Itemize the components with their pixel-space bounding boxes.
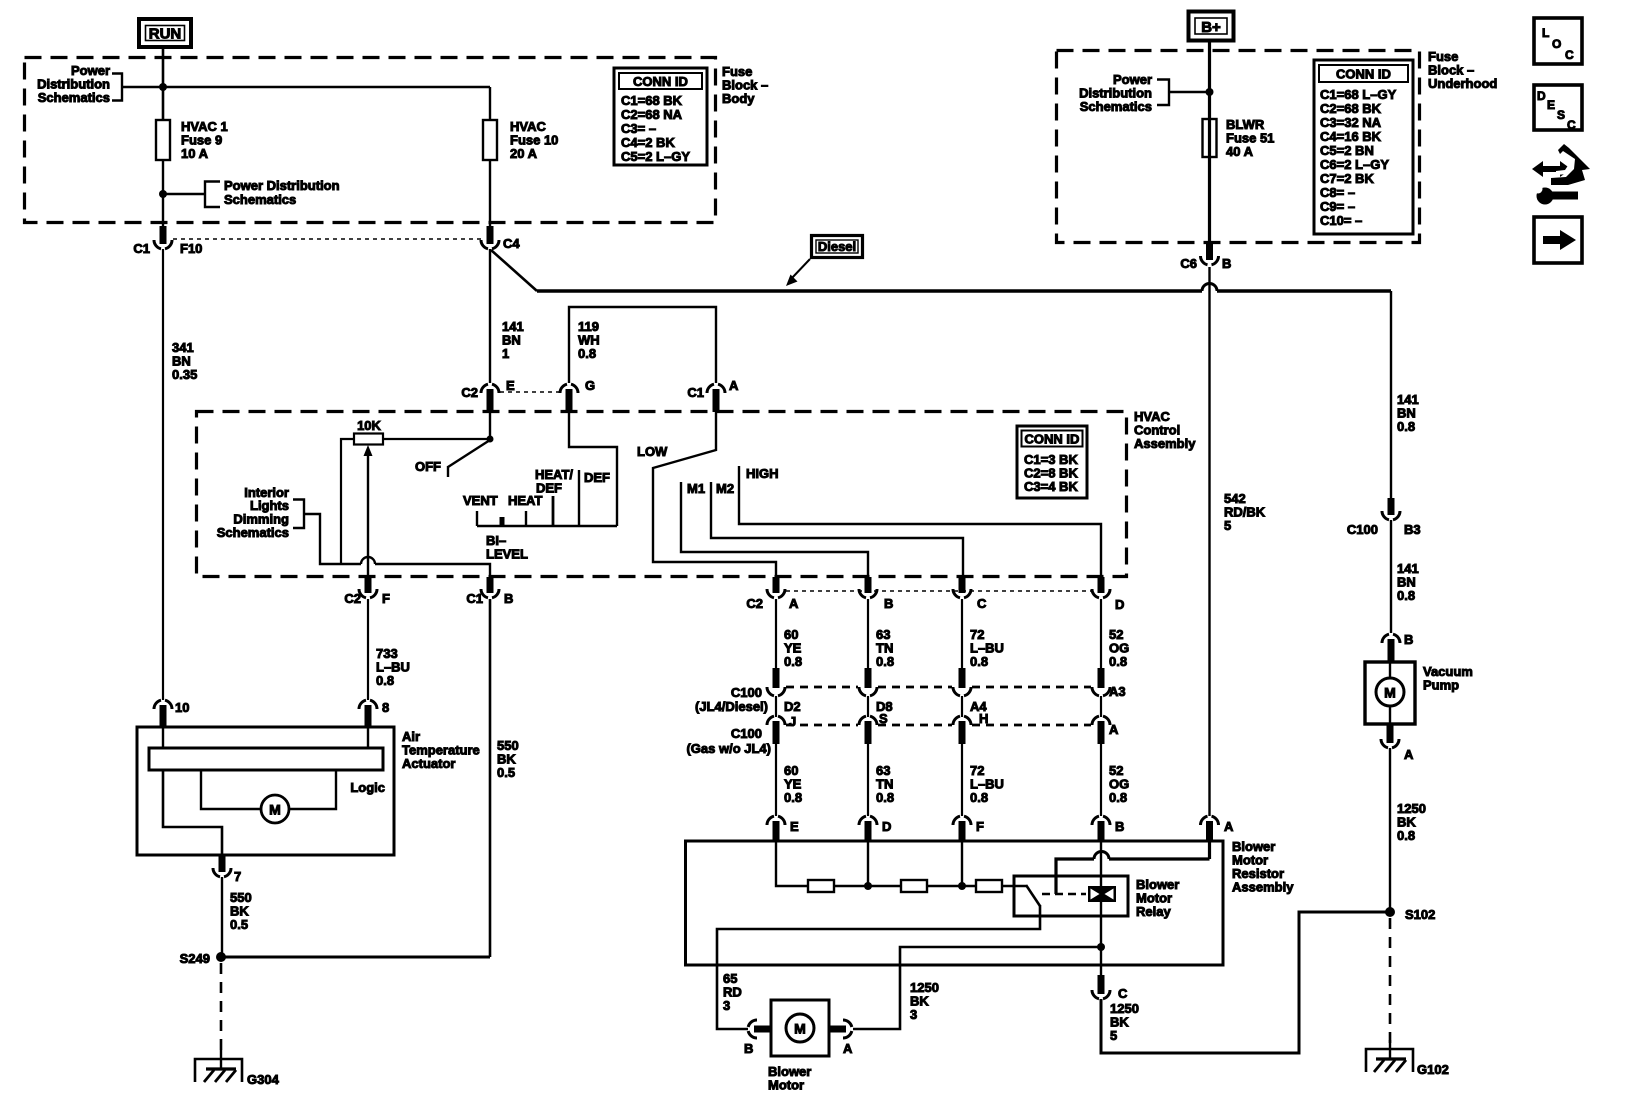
svg-text:Underhood: Underhood: [1428, 76, 1497, 91]
svg-text:C2: C2: [344, 591, 361, 606]
svg-text:C: C: [1118, 986, 1128, 1001]
svg-text:C2: C2: [461, 385, 478, 400]
wire R3 to relay: [1002, 885, 1026, 887]
wire fuse 9 down: [162, 160, 164, 241]
svg-text:F: F: [382, 591, 390, 606]
svg-text:C4: C4: [503, 236, 520, 251]
Power Distribution Schematics callout (underhood): [1079, 72, 1210, 114]
wire R1-R2: [834, 885, 901, 887]
wire S249 to C1 pin B: [221, 956, 490, 959]
connector C100 pin S lower half: [859, 711, 888, 744]
connector C100 pin A lower half: [1092, 716, 1119, 744]
node: junction at RUN feed: [159, 83, 167, 91]
svg-text:G304: G304: [247, 1072, 280, 1087]
svg-text:5: 5: [1110, 1028, 1117, 1043]
svg-text:0.8: 0.8: [970, 790, 988, 805]
wire R2-R3: [927, 885, 976, 887]
Power Distribution Schematics callout (lower): [163, 178, 340, 207]
svg-text:B3: B3: [1404, 522, 1421, 537]
connector motor pin A: [843, 1020, 853, 1056]
connector C100 pin A4 upper half: [953, 668, 987, 714]
connector C4: [481, 226, 520, 251]
connector pin C: [1092, 975, 1128, 1001]
connector C1 pin F10: [133, 226, 202, 256]
resistor R3: [976, 880, 1002, 892]
svg-text:C100: C100: [731, 726, 762, 741]
svg-text:B: B: [884, 596, 893, 611]
svg-text:C7=2 BK: C7=2 BK: [1320, 171, 1374, 186]
svg-text:Schematics: Schematics: [224, 192, 296, 207]
wire 72 L–BU 0.8 lower: [962, 744, 1004, 816]
wire bar to pin 7: [163, 770, 222, 855]
svg-text:C5=2 BN: C5=2 BN: [1320, 143, 1374, 158]
svg-text:C3=4 BK: C3=4 BK: [1024, 479, 1078, 494]
svg-text:LEVEL: LEVEL: [486, 547, 528, 562]
svg-text:C6=2 L–GY: C6=2 L–GY: [1320, 157, 1389, 172]
svg-text:HIGH: HIGH: [746, 466, 779, 481]
svg-text:Pump: Pump: [1423, 678, 1459, 693]
Interior Lights Dimming Schematics callout: [217, 485, 341, 564]
svg-text:40 A: 40 A: [1226, 144, 1254, 159]
svg-text:C1: C1: [466, 591, 483, 606]
connector C2 pin F: [344, 577, 390, 606]
wire diesel feed diagonal from C4: [491, 250, 537, 291]
wire 72 L–BU 0.8: [962, 599, 1004, 669]
wire diesel feed horizontal: [537, 289, 1202, 292]
connector C1 pin B: [466, 577, 513, 606]
connector C100 pin J lower half: [767, 714, 796, 744]
label 65 RD 3: [723, 971, 742, 1013]
svg-text:C100: C100: [731, 685, 762, 700]
node S102 splice: [1385, 907, 1435, 922]
wire 1250 BK 3 from motor A: [853, 947, 1101, 1029]
svg-text:Diesel: Diesel: [818, 239, 856, 254]
dashed connector face E-G: [500, 391, 560, 393]
label Fuse Block - Body: [722, 64, 768, 106]
svg-text:0.8: 0.8: [876, 654, 894, 669]
blower switch wire from A with LOW blade: [637, 412, 776, 576]
connector pin G: [560, 378, 595, 412]
wire 550 BK 0.5 (C1 B down): [490, 599, 519, 957]
wire 60 YE 0.8: [776, 599, 802, 669]
svg-text:C2=68 BK: C2=68 BK: [1320, 101, 1382, 116]
connector C1 pin A (HVAC control): [687, 378, 739, 412]
svg-text:Body: Body: [722, 91, 755, 106]
svg-text:D: D: [1537, 89, 1546, 103]
wire B+ down: [1208, 41, 1211, 243]
label Blower Motor Relay: [1136, 877, 1179, 919]
svg-text:A: A: [843, 1041, 853, 1056]
svg-text:M: M: [794, 1021, 806, 1037]
wire fuse 10 down: [489, 160, 491, 241]
connector C2 pin D: [1092, 577, 1124, 612]
svg-text:0.8: 0.8: [1109, 654, 1127, 669]
node: motor return junction: [1097, 943, 1105, 951]
relay switch blade: [1026, 885, 1040, 906]
potentiometer element bar: [149, 748, 383, 770]
connector C100 pin H lower half: [953, 711, 988, 744]
wire E stub down to junction: [489, 412, 491, 439]
svg-text:L: L: [1542, 26, 1549, 40]
svg-text:C: C: [1565, 48, 1574, 62]
Blower Motor: [754, 1000, 846, 1056]
svg-text:Motor: Motor: [768, 1078, 804, 1093]
svg-text:A: A: [1404, 747, 1414, 762]
svg-text:0.35: 0.35: [172, 367, 197, 382]
label HVAC Control Assembly: [1134, 409, 1196, 451]
svg-text:0.8: 0.8: [1397, 588, 1415, 603]
ground G102: [1366, 1040, 1449, 1077]
wire 119 WH 0.8 loop G to A: [569, 307, 716, 383]
connector motor pin B: [744, 1020, 757, 1056]
svg-text:C1=68 BK: C1=68 BK: [621, 93, 683, 108]
wire coil feed from pin A: [1056, 841, 1210, 894]
wire 1250 BK 0.8: [1390, 748, 1426, 908]
wire 10K to E junction: [383, 438, 490, 440]
svg-text:7: 7: [234, 869, 241, 884]
svg-text:S102: S102: [1405, 907, 1435, 922]
connector vacuum pump pin B: [1382, 632, 1413, 662]
connector resistor pin E: [767, 816, 799, 841]
svg-text:B+: B+: [1201, 19, 1221, 36]
ground G304: [195, 1050, 280, 1087]
wire 733 L-BU 0.8: [368, 599, 410, 700]
svg-text:20 A: 20 A: [510, 146, 538, 161]
svg-text:C2=68 NA: C2=68 NA: [621, 107, 683, 122]
wire relay output to blower motor B: [717, 905, 1040, 1029]
CONN ID table (fuse block body): [614, 68, 707, 165]
wire F drop: [961, 841, 963, 886]
wire 63 TN 0.8 lower: [868, 744, 894, 816]
ignition RUN source box: [139, 19, 191, 47]
wire 341 BN 0.35: [163, 249, 197, 700]
dashed connector face C100 upper: [786, 686, 1091, 689]
svg-text:0.8: 0.8: [876, 790, 894, 805]
connector resistor pin B: [1092, 816, 1124, 841]
svg-text:0.8: 0.8: [784, 654, 802, 669]
svg-text:(Gas w/o JL4): (Gas w/o JL4): [686, 741, 771, 756]
svg-text:10 A: 10 A: [181, 146, 209, 161]
wire fuse 10 drop: [489, 87, 491, 120]
svg-text:10: 10: [175, 700, 189, 715]
svg-text:S249: S249: [180, 951, 210, 966]
svg-text:Actuator: Actuator: [402, 756, 455, 771]
svg-text:C: C: [977, 596, 987, 611]
motor M actuator: [261, 795, 289, 823]
Blower Motor Resistor Assembly box: [686, 841, 1224, 965]
wire 63 TN 0.8: [868, 599, 894, 669]
relay coil actuation dashes: [1042, 893, 1086, 896]
connector C2 pin C: [953, 577, 987, 611]
Fuse Block - Underhood dashed enclosure: [1057, 51, 1420, 243]
connector C2 pin B: [859, 577, 893, 611]
svg-text:VENT: VENT: [463, 493, 498, 508]
svg-text:B: B: [1404, 632, 1413, 647]
svg-text:B: B: [504, 591, 513, 606]
wire motor right to bar: [289, 770, 336, 809]
fuse F9 HVAC 1 10A: [156, 119, 228, 161]
mode position DEF: [579, 470, 610, 526]
resistor R2: [901, 880, 927, 892]
svg-text:Power Distribution: Power Distribution: [224, 178, 340, 193]
wire dimmer rail to C1 pin B: [341, 563, 361, 565]
svg-text:0.8: 0.8: [784, 790, 802, 805]
svg-text:Assembly: Assembly: [1134, 436, 1196, 451]
svg-text:C10= –: C10= –: [1320, 213, 1362, 228]
svg-text:Logic: Logic: [350, 780, 385, 795]
connector actuator pin 7: [213, 855, 241, 884]
relay coil: [1088, 886, 1116, 902]
wire E into resistor chain: [776, 841, 808, 886]
node S249 splice: [180, 951, 226, 966]
svg-text:C1: C1: [687, 385, 704, 400]
node: OFF switch junction: [487, 436, 494, 443]
svg-text:10K: 10K: [357, 418, 381, 433]
svg-text:C8= –: C8= –: [1320, 185, 1355, 200]
wire 10K left side: [341, 439, 354, 564]
blower switch M1 wire: [681, 481, 868, 576]
CONN ID table (HVAC control): [1017, 426, 1087, 498]
switch blade OFF: [415, 440, 490, 477]
wire C100 mate: [867, 696, 869, 717]
svg-text:M: M: [269, 802, 281, 818]
svg-text:Assembly: Assembly: [1232, 880, 1294, 895]
svg-text:F: F: [976, 819, 984, 834]
mode position VENT: [463, 493, 498, 526]
fuse F10 HVAC 20A: [483, 119, 558, 161]
node: F tap: [958, 882, 966, 890]
svg-text:Schematics: Schematics: [1080, 99, 1152, 114]
svg-text:J: J: [789, 714, 796, 729]
svg-text:Relay: Relay: [1136, 904, 1171, 919]
svg-text:M1: M1: [687, 481, 705, 496]
wire C100 mate: [961, 696, 963, 717]
svg-text:A: A: [729, 378, 739, 393]
wire bar to motor left: [201, 770, 261, 809]
wire C100 mate: [1100, 696, 1102, 717]
connector vacuum pump pin A: [1381, 724, 1414, 762]
connector resistor pin F: [953, 816, 984, 841]
svg-text:C2: C2: [746, 596, 763, 611]
svg-text:CONN ID: CONN ID: [633, 74, 688, 89]
resistor R1: [808, 880, 834, 892]
svg-text:F10: F10: [180, 241, 202, 256]
svg-text:A: A: [1109, 722, 1119, 737]
svg-text:0.8: 0.8: [1109, 790, 1127, 805]
svg-text:C3= –: C3= –: [621, 121, 656, 136]
svg-text:0.8: 0.8: [376, 673, 394, 688]
wire 52 OG 0.8 lower: [1101, 744, 1129, 816]
svg-text:B: B: [744, 1041, 753, 1056]
connector C100 pin D8 upper half: [859, 668, 893, 714]
svg-text:0.5: 0.5: [230, 917, 248, 932]
label Blower Motor Resistor Assembly: [1232, 839, 1294, 895]
blower switch M2 wire: [711, 481, 963, 576]
svg-text:(JL4/Diesel): (JL4/Diesel): [695, 699, 768, 714]
dashed connector face line C1-C4: [173, 238, 481, 240]
svg-text:M: M: [1384, 685, 1396, 701]
svg-text:RUN: RUN: [149, 26, 182, 43]
wire pin 10 into bar: [162, 727, 164, 748]
mode position HEAT/DEF: [535, 467, 573, 526]
node: power distribution tap: [159, 190, 167, 198]
connector C100 pin D2 upper half: [767, 668, 801, 714]
svg-text:S: S: [1557, 108, 1565, 122]
svg-text:OFF: OFF: [415, 459, 441, 474]
wire C100 mate: [775, 696, 777, 717]
svg-text:C9= –: C9= –: [1320, 199, 1355, 214]
svg-text:DEF: DEF: [584, 470, 610, 485]
svg-text:C100: C100: [1347, 522, 1378, 537]
wire S249 to ground dashed: [220, 963, 223, 1057]
wire D drop: [867, 841, 869, 886]
label Air Temperature Actuator: [402, 729, 480, 771]
svg-text:0.8: 0.8: [578, 346, 596, 361]
wire 52 OG 0.8: [1101, 599, 1129, 669]
wire feed to fuse 10: [163, 86, 490, 88]
wire 141 BN 1 (C4 down): [490, 249, 524, 383]
mode position BI-LEVEL: [486, 517, 528, 562]
svg-text:CONN ID: CONN ID: [1025, 432, 1080, 447]
connector C2 pin E (HVAC control): [461, 378, 515, 412]
node: underhood feed tap: [1206, 88, 1214, 96]
wire 542 RD/BK 5: [1210, 267, 1266, 816]
icon wiring repair (arrows and wrench): [1532, 144, 1590, 205]
Diesel callout box: [786, 236, 863, 287]
svg-text:3: 3: [723, 998, 730, 1013]
svg-text:A: A: [1224, 819, 1234, 834]
svg-text:E: E: [790, 819, 799, 834]
svg-text:M2: M2: [716, 481, 734, 496]
wire hop over wiper: [361, 557, 375, 564]
connector C6 pin B: [1180, 243, 1231, 271]
svg-text:C6: C6: [1180, 256, 1197, 271]
label Blower Motor: [768, 1064, 811, 1093]
blower switch HIGH wire: [739, 466, 1101, 576]
svg-text:C: C: [1567, 118, 1576, 132]
svg-text:Schematics: Schematics: [38, 90, 110, 105]
svg-text:C5=2 L–GY: C5=2 L–GY: [621, 149, 690, 164]
icon DESC box: [1534, 85, 1582, 132]
icon forward arrow box: [1534, 217, 1582, 263]
svg-text:5: 5: [1224, 518, 1231, 533]
svg-text:Schematics: Schematics: [217, 525, 289, 540]
HVAC Control Assembly dashed enclosure: [197, 412, 1127, 577]
svg-text:D: D: [1115, 597, 1124, 612]
svg-text:0.5: 0.5: [497, 765, 515, 780]
svg-text:G102: G102: [1417, 1062, 1449, 1077]
connector C2 pin A: [746, 577, 799, 611]
svg-text:G: G: [585, 378, 595, 393]
svg-text:0.8: 0.8: [1397, 419, 1415, 434]
svg-text:0.8: 0.8: [970, 654, 988, 669]
svg-text:C3=32 NA: C3=32 NA: [1320, 115, 1382, 130]
wire B column through relay: [1100, 841, 1102, 975]
svg-text:8: 8: [382, 700, 389, 715]
CONN ID table (fuse block underhood): [1314, 60, 1413, 234]
dashed connector face C100 lower: [786, 724, 1091, 727]
connector actuator pin 10: [154, 700, 189, 727]
connector C100 pin B3: [1347, 498, 1421, 537]
svg-text:C1=68 L–GY: C1=68 L–GY: [1320, 87, 1397, 102]
svg-text:A: A: [789, 596, 799, 611]
wire RUN to fuse 9: [162, 47, 165, 120]
svg-text:C4=2 BK: C4=2 BK: [621, 135, 675, 150]
wire 141 BN 0.8 (lower right): [1391, 520, 1419, 633]
mode switch rail: [477, 525, 617, 527]
wire 141 BN 0.8 (upper right): [1391, 291, 1419, 498]
mode position HEAT: [508, 493, 542, 526]
node: D tap: [864, 882, 872, 890]
fuse F51 BLWR 40A: [1203, 117, 1275, 159]
svg-text:O: O: [1552, 37, 1561, 51]
svg-text:CONN ID: CONN ID: [1336, 67, 1391, 82]
mode switch feed from G: [569, 412, 617, 526]
wire 1250 BK 5 to S102: [1101, 912, 1386, 1053]
connector resistor pin A: [1201, 816, 1235, 841]
Fuse Block - Body dashed enclosure: [25, 58, 716, 223]
svg-text:C1: C1: [133, 241, 150, 256]
connector actuator pin 8: [359, 700, 389, 727]
svg-text:0.8: 0.8: [1397, 828, 1415, 843]
battery B+ source box: [1189, 12, 1234, 41]
dashed connector face A-D: [786, 590, 1092, 592]
icon LOC box: [1534, 18, 1582, 64]
svg-text:E: E: [506, 378, 515, 393]
svg-text:D2: D2: [784, 699, 801, 714]
svg-text:LOW: LOW: [637, 444, 668, 459]
svg-text:E: E: [1547, 98, 1555, 112]
svg-text:D: D: [882, 819, 891, 834]
svg-text:A3: A3: [1109, 684, 1126, 699]
connector C100 (Gas w/o JL4) labels: [686, 726, 771, 756]
svg-text:DEF: DEF: [536, 481, 562, 496]
connector resistor pin D: [859, 816, 891, 841]
wire 60 YE 0.8 lower: [776, 744, 802, 816]
Vacuum Pump: [1365, 662, 1473, 724]
svg-text:C4=16 BK: C4=16 BK: [1320, 129, 1382, 144]
svg-text:B: B: [1115, 819, 1124, 834]
svg-text:3: 3: [910, 1007, 917, 1022]
Air Temperature Actuator box: [137, 727, 394, 855]
resistor 10K (illumination pot): [354, 418, 383, 445]
svg-text:B: B: [1222, 256, 1231, 271]
potentiometer wiper arrow: [364, 445, 373, 576]
wire pin 8 into bar: [367, 727, 369, 748]
wire S102 to ground dashed: [1389, 918, 1392, 1047]
Power Distribution Schematics callout (top left): [37, 63, 163, 105]
wire hop over 542 wire: [1202, 284, 1217, 291]
svg-text:1: 1: [502, 346, 509, 361]
Blower Motor Relay box: [1014, 876, 1128, 916]
connector C100 (JL4/Diesel) labels: [695, 685, 768, 714]
label Fuse Block - Underhood: [1428, 49, 1497, 91]
connector C100 pin A3 upper half: [1092, 668, 1126, 699]
wire 550 BK 0.5 (pin 7): [222, 877, 252, 953]
